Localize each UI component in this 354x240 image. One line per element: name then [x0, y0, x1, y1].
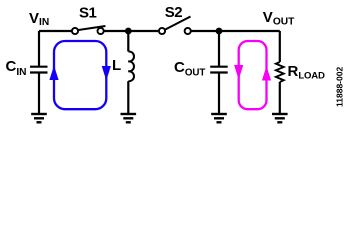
svg-text:COUT: COUT — [174, 59, 205, 79]
svg-text:S2: S2 — [165, 4, 183, 21]
svg-text:L: L — [112, 57, 121, 74]
wire from S1 right contact to S2 left contact — [101, 30, 162, 32]
wire RLOAD to ground — [279, 82, 281, 113]
svg-text:VOUT: VOUT — [263, 9, 295, 28]
blue current loop arrow — [49, 41, 111, 109]
svg-text:VIN: VIN — [29, 10, 49, 28]
wire VIN vertical drop to CIN — [38, 31, 40, 66]
ground under COUT — [211, 114, 227, 122]
wire VOUT corner drop to RLOAD — [279, 31, 281, 62]
capacitor COUT — [210, 67, 228, 113]
svg-text:CIN: CIN — [6, 58, 27, 78]
node junction dot at S2/COUT/VOUT — [216, 28, 223, 35]
svg-text:RLOAD: RLOAD — [288, 63, 325, 82]
ground under RLOAD — [272, 114, 288, 122]
inductor L — [128, 51, 134, 81]
magenta current loop arrow — [234, 41, 271, 109]
ground under CIN — [31, 114, 47, 122]
switch S2 — [159, 17, 191, 35]
wire from S2 right contact to VOUT corner — [188, 30, 280, 32]
wire top rail from VIN corner to S1 left contact — [39, 30, 75, 32]
resistor RLOAD — [276, 62, 284, 82]
wire from node to inductor — [127, 31, 129, 52]
svg-text:11888-002: 11888-002 — [335, 67, 345, 107]
wire from node to COUT — [218, 31, 220, 66]
switch S1 — [72, 26, 106, 34]
ground under L — [121, 114, 137, 122]
svg-text:S1: S1 — [79, 5, 97, 22]
node junction dot at S1/S2/L — [125, 28, 132, 35]
wire from inductor to ground — [127, 81, 129, 113]
capacitor CIN — [30, 67, 48, 113]
